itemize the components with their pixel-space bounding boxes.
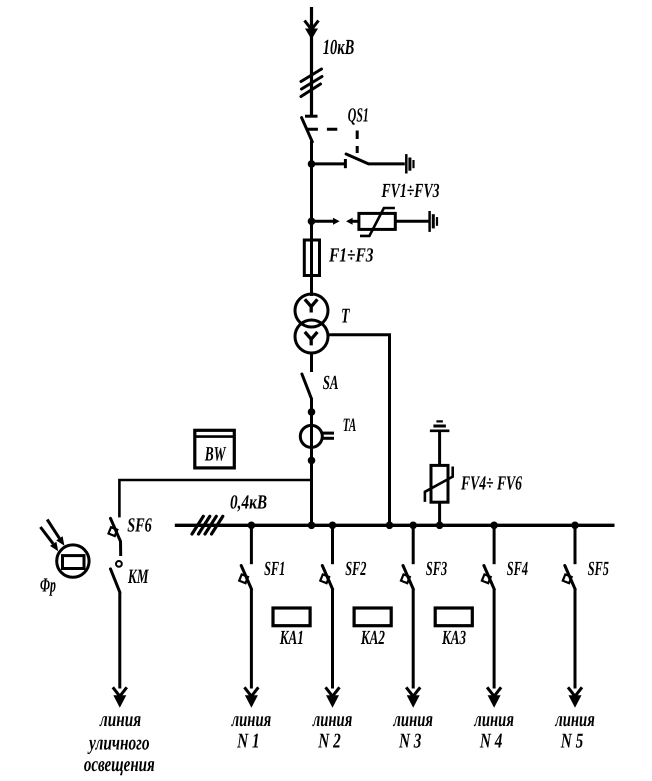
cable marks (3 slashes): [301, 69, 322, 97]
svg-text:TA: TA: [343, 415, 357, 436]
busbar hash marks (4 slashes): [192, 516, 223, 534]
surge arrester FV1÷FV3 spark gap left arrow: [312, 218, 340, 225]
busbar junction dots: [248, 522, 579, 530]
feeder 5 wire from busbar: [574, 525, 577, 564]
photo sensor Фр circle: [57, 545, 89, 577]
switch SA blade: [302, 374, 312, 399]
svg-text:FV1÷FV3: FV1÷FV3: [381, 180, 440, 202]
wire varistor to earth: [395, 220, 428, 223]
svg-text:N 1: N 1: [236, 729, 259, 753]
feeder 3 arrow: [406, 687, 420, 708]
photo sensor light arrow 1: [47, 520, 64, 546]
arrester node junction dot: [308, 218, 316, 226]
svg-text:SF5: SF5: [588, 558, 609, 580]
grounding switch wire from node A: [312, 162, 346, 165]
surge arrester FV1÷FV3 varistor diagonal: [360, 208, 395, 236]
wire transformer bottom to SA: [310, 353, 313, 372]
feeder 4 arrow: [487, 687, 501, 708]
feeder 3 wire from busbar: [412, 525, 415, 564]
surge arrester FV4÷FV6 varistor diagonal: [425, 467, 453, 502]
svg-text:линия: линия: [474, 707, 514, 731]
svg-text:N 3: N 3: [398, 729, 421, 753]
feeder 1 wire down: [250, 589, 253, 688]
label линия N 5: [555, 707, 595, 753]
junction dot below TA: [308, 457, 316, 465]
breaker SF5 blade: [565, 566, 575, 590]
wire through fuse to transformer: [310, 240, 313, 296]
contactor KM contact circle: [116, 561, 122, 567]
wire transformer right side down to busbar: [328, 335, 390, 526]
svg-text:уличного: уличного: [87, 731, 150, 755]
disconnector QS1 blade: [302, 118, 313, 142]
wire street lighting branch: [119, 480, 311, 517]
wire earth to FV4 varistor: [438, 431, 441, 466]
svg-text:SA: SA: [323, 372, 339, 394]
feeder 1 arrow: [244, 687, 258, 708]
photo sensor light arrow 2: [40, 527, 58, 551]
current relay KA2 box: [354, 608, 391, 626]
svg-text:T: T: [341, 304, 350, 328]
breaker SF2 cross square: [320, 574, 329, 583]
breaker SF4 cross square: [482, 574, 491, 583]
wire through TA: [310, 425, 313, 447]
svg-text:SF6: SF6: [127, 515, 152, 537]
wire FV4 varistor to busbar: [438, 502, 441, 525]
feeder 4 wire down: [493, 589, 496, 688]
svg-text:SF3: SF3: [426, 558, 447, 580]
surge arrester FV1÷FV3 varistor box: [359, 213, 395, 229]
svg-text:KM: KM: [127, 566, 149, 588]
svg-text:линия: линия: [312, 707, 352, 731]
label линия N 2: [312, 707, 352, 753]
wire SA to TA: [310, 398, 313, 426]
feeder 1 wire from busbar: [250, 525, 253, 564]
feeder 5 arrow: [568, 687, 582, 708]
svg-text:линия: линия: [231, 707, 271, 731]
ground (earth) symbol right of FV1: [430, 211, 437, 232]
wire TA to busbar: [310, 447, 313, 525]
svg-text:освещения: освещения: [84, 752, 155, 776]
transformer T secondary winding circle: [295, 320, 328, 353]
disconnector QS1 fixed contact tick: [305, 115, 318, 118]
transformer T primary Y symbol: [305, 299, 318, 312]
current transformer TA circle: [300, 425, 322, 447]
wire KM down to arrow: [118, 592, 121, 688]
incoming arrow: [305, 21, 319, 40]
breaker SF6 blade: [111, 518, 121, 541]
ground (earth) symbol right of QS1: [406, 154, 413, 173]
TA secondary leads: [322, 433, 335, 438]
label линия уличного освещения: [84, 707, 155, 776]
svg-text:SF1: SF1: [264, 558, 285, 580]
breaker SF5 cross square: [563, 574, 572, 583]
breaker SF4 blade: [484, 566, 494, 590]
current relay KA3 box: [435, 608, 472, 626]
svg-text:FV4÷ FV6: FV4÷ FV6: [460, 473, 522, 495]
label линия N 3: [393, 707, 433, 753]
wire grounding switch to earth: [368, 162, 405, 165]
QS1 linkage dashed vertical: [356, 131, 359, 154]
transformer T secondary Y symbol: [305, 332, 318, 346]
surge arrester FV1÷FV3 spark gap right arrow: [346, 218, 359, 225]
wire arrester node to fuse: [310, 221, 313, 241]
breaker SF3 cross square: [401, 574, 410, 583]
feeder 2 arrow: [326, 687, 340, 708]
feeder 3 wire down: [412, 589, 415, 688]
breaker SF6 cross square: [108, 527, 117, 536]
current relay KA1 box: [273, 608, 310, 626]
street lighting arrow: [113, 687, 127, 708]
grounding switch fixed contact tick: [344, 159, 347, 168]
junction dot above TA: [308, 408, 316, 416]
wire QS1 to node A: [310, 141, 313, 164]
svg-text:Фр: Фр: [40, 575, 56, 597]
fuse F1÷F3: [304, 240, 319, 276]
svg-text:KA2: KA2: [360, 627, 385, 649]
grounding switch blade: [346, 154, 368, 164]
feeder 4 wire from busbar: [493, 525, 496, 564]
svg-text:линия: линия: [99, 707, 141, 731]
svg-text:N 5: N 5: [560, 729, 583, 753]
wire SF6 to KM: [119, 541, 122, 556]
QS1 linkage dashed horizontal: [308, 128, 345, 131]
svg-text:линия: линия: [555, 707, 595, 731]
svg-text:N 4: N 4: [479, 729, 502, 753]
contactor KM blade: [111, 569, 120, 593]
feeder 2 wire down: [331, 589, 334, 688]
breaker SF2 blade: [322, 566, 332, 590]
busbar 0.4kV: [175, 524, 615, 527]
label линия N 4: [474, 707, 514, 753]
svg-text:F1÷F3: F1÷F3: [328, 245, 373, 267]
surge arrester FV4÷FV6 earth symbol: [430, 421, 450, 430]
photo sensor Фр inner rectangle: [63, 556, 85, 569]
svg-text:SF2: SF2: [345, 558, 366, 580]
svg-text:N 2: N 2: [318, 729, 342, 753]
breaker SF1 cross square: [239, 574, 248, 583]
feeder 5 wire down: [574, 589, 577, 688]
feeder 2 wire from busbar: [331, 525, 334, 564]
svg-text:BW: BW: [204, 444, 227, 466]
node A junction dot: [308, 160, 316, 168]
svg-text:KA3: KA3: [441, 627, 466, 649]
svg-text:KA1: KA1: [279, 627, 304, 649]
transformer T primary winding circle: [295, 294, 328, 327]
svg-text:линия: линия: [393, 707, 433, 731]
svg-text:0,4кВ: 0,4кВ: [230, 492, 267, 514]
meter BW box: [195, 430, 235, 468]
svg-text:QS1: QS1: [348, 105, 369, 127]
surge arrester FV4÷FV6 varistor box: [431, 465, 448, 502]
wire incoming 10kV line: [310, 7, 313, 116]
breaker SF3 blade: [403, 566, 413, 590]
breaker SF1 blade: [241, 566, 251, 590]
svg-text:SF4: SF4: [507, 558, 528, 580]
label линия N 1: [231, 707, 271, 753]
svg-text:10кВ: 10кВ: [323, 35, 355, 59]
wire node A to arrester node: [310, 164, 313, 221]
